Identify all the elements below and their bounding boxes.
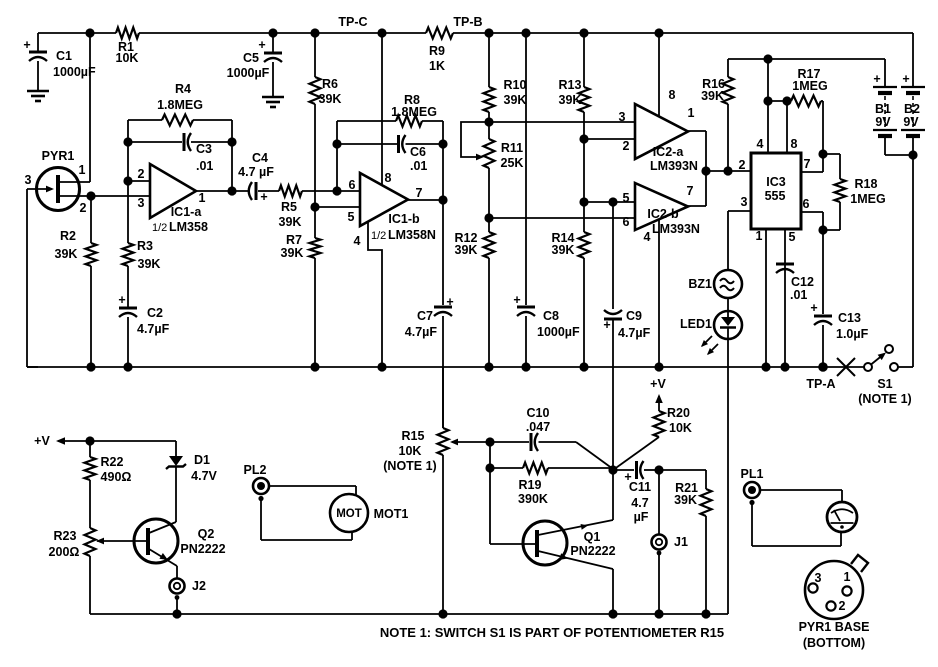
- svg-text:PYR1: PYR1: [42, 149, 75, 163]
- node IC2-a pin2 junction: [579, 134, 588, 143]
- svg-text:39K: 39K: [281, 246, 304, 260]
- motor MOT1: [330, 494, 368, 532]
- svg-text:200Ω: 200Ω: [49, 545, 80, 559]
- resistor R21: [701, 489, 712, 516]
- wire R21 bottom: [705, 516, 707, 614]
- node ground rail IC3 pin5: [780, 362, 789, 371]
- svg-text:C13: C13: [838, 311, 861, 325]
- svg-text:2: 2: [623, 139, 630, 153]
- node C9 top junction: [608, 197, 617, 206]
- svg-text:2: 2: [739, 158, 746, 172]
- wire +V rail 2 (B1 positive bus): [728, 58, 885, 60]
- potentiometer R23: [85, 528, 96, 614]
- node IC1-b pin5 junction: [310, 202, 319, 211]
- resistor R12: [484, 232, 495, 258]
- capacitor C12: [776, 264, 794, 273]
- resistor R5: [279, 186, 302, 197]
- svg-text:490Ω: 490Ω: [101, 470, 132, 484]
- op-amp IC1-a: [150, 164, 196, 218]
- wire LED1 to bottom rail: [727, 339, 729, 614]
- svg-text:+: +: [603, 318, 610, 332]
- wire R5 to IC1-b pin6: [302, 190, 337, 192]
- wire PL2 to MOT1 bottom: [261, 500, 352, 540]
- label C9: [603, 309, 650, 340]
- node C6 left junction: [332, 139, 341, 148]
- wire PL2 to MOT1 top: [269, 486, 356, 496]
- wire IC3 pin6 stub: [801, 212, 823, 230]
- svg-text:+V: +V: [650, 377, 666, 391]
- node ground rail R14: [579, 362, 588, 371]
- label MOT1: [374, 507, 409, 521]
- svg-text:B1: B1: [875, 102, 891, 116]
- power +V right: [650, 377, 666, 411]
- transistor Q1: [523, 521, 567, 565]
- diode D1 zener: [166, 441, 186, 522]
- wire C7 bottom: [442, 316, 444, 428]
- wire IC3 pin5: [784, 229, 786, 367]
- node ground rail R12: [484, 362, 493, 371]
- svg-text:6: 6: [623, 215, 630, 229]
- label C2: [118, 293, 169, 336]
- svg-text:39K: 39K: [674, 493, 697, 507]
- svg-text:C9: C9: [626, 309, 642, 323]
- wire IC1-b pin8 from TP-C: [381, 33, 383, 185]
- svg-text:J2: J2: [192, 579, 206, 593]
- comparator IC2-a: [635, 104, 688, 159]
- svg-text:39K: 39K: [559, 93, 582, 107]
- svg-text:9V: 9V: [875, 115, 891, 129]
- wire C2 bottom: [127, 317, 129, 367]
- svg-text:Q1: Q1: [584, 530, 601, 544]
- svg-text:1/2: 1/2: [371, 230, 386, 242]
- capacitor C1: [29, 33, 47, 90]
- label C8: [513, 293, 580, 339]
- label R15: [383, 429, 436, 473]
- node IC3 pin7 junction: [818, 149, 827, 158]
- wire R19 right: [548, 467, 613, 469]
- wire TP-B to R10: [488, 33, 490, 87]
- svg-text:2: 2: [80, 201, 87, 215]
- svg-text:PN2222: PN2222: [180, 542, 225, 556]
- wire C6 right: [406, 143, 444, 145]
- buzzer BZ1: [714, 211, 742, 298]
- label C7: [405, 295, 454, 339]
- svg-text:3: 3: [25, 173, 32, 187]
- svg-text:C8: C8: [543, 309, 559, 323]
- resistor R6: [310, 77, 321, 104]
- svg-text:TP-B: TP-B: [453, 15, 482, 29]
- label D1: [191, 453, 217, 483]
- note text: [380, 625, 724, 640]
- svg-text:R5: R5: [281, 200, 297, 214]
- label R18: [850, 177, 885, 206]
- svg-text:(BOTTOM): (BOTTOM): [803, 636, 865, 650]
- capacitor C6: [399, 135, 406, 153]
- label R3: [137, 239, 160, 271]
- wire Q2 emitter: [149, 549, 177, 578]
- svg-text:4: 4: [354, 234, 361, 248]
- node R15 wiper junction: [485, 437, 494, 446]
- svg-text:+: +: [513, 293, 520, 307]
- svg-text:4: 4: [757, 137, 764, 151]
- wire IC3 pin3 wire: [728, 210, 751, 212]
- wire +V to D1: [90, 440, 176, 442]
- svg-text:R9: R9: [429, 44, 445, 58]
- label C3: [196, 142, 213, 173]
- wire R19 left: [490, 442, 523, 468]
- svg-text:39K: 39K: [279, 215, 302, 229]
- label PYR1 BASE: [799, 620, 870, 650]
- resistor R14: [579, 232, 590, 258]
- svg-text:+: +: [446, 295, 453, 309]
- wire R4 right vertical: [231, 120, 233, 191]
- label R6: [319, 77, 342, 106]
- jack J1: [652, 535, 667, 615]
- node ground rail R2: [86, 362, 95, 371]
- label B1: [873, 72, 891, 129]
- svg-text:1MEG: 1MEG: [850, 192, 885, 206]
- wire C10 left: [490, 441, 529, 443]
- wire C11 right: [644, 469, 659, 471]
- wire R3 to C2: [127, 266, 129, 308]
- node IC1-b output junction: [438, 195, 447, 204]
- wire R8 right vertical: [442, 121, 444, 200]
- wire IC2-b output: [688, 205, 706, 207]
- svg-text:IC2-b: IC2-b: [647, 207, 679, 221]
- switch S1: [864, 345, 898, 371]
- svg-text:R3: R3: [137, 239, 153, 253]
- svg-text:39K: 39K: [319, 92, 342, 106]
- label R8: [391, 93, 437, 119]
- wire ground rail: [27, 366, 864, 368]
- wire IC2-b pin6 wire: [489, 217, 635, 219]
- wire IC3 pin4: [767, 59, 769, 153]
- resistor R7: [310, 238, 321, 258]
- svg-text:1.0µF: 1.0µF: [836, 327, 869, 341]
- svg-text:+: +: [23, 38, 30, 52]
- svg-text:C2: C2: [147, 306, 163, 320]
- node IC2 outputs junction: [701, 166, 710, 175]
- label C1: [23, 38, 96, 79]
- svg-text:R7: R7: [286, 233, 302, 247]
- wire IC2-b pin5 wire: [584, 201, 635, 203]
- wire R7 bottom: [314, 258, 316, 367]
- node IC2-b pin6 junction: [484, 213, 493, 222]
- svg-text:10K: 10K: [669, 421, 692, 435]
- svg-text:LM358: LM358: [169, 220, 208, 234]
- capacitor C5: [264, 33, 282, 96]
- svg-text:4.7 µF: 4.7 µF: [238, 165, 274, 179]
- svg-text:R6: R6: [322, 77, 338, 91]
- battery B2: [901, 33, 925, 155]
- svg-text:PL1: PL1: [741, 467, 764, 481]
- wire IC3 pin8: [786, 101, 788, 153]
- svg-text:5: 5: [789, 230, 796, 244]
- wire R3 top: [127, 181, 129, 243]
- wire C4 to R5: [258, 190, 279, 192]
- node IC3 pin6 junction: [818, 225, 827, 234]
- label C12: [790, 275, 814, 302]
- svg-text:IC1-b: IC1-b: [388, 212, 420, 226]
- label R12: [455, 231, 478, 257]
- jack J2: [170, 579, 185, 615]
- svg-text:LED1: LED1: [680, 317, 712, 331]
- label B2: [902, 72, 920, 129]
- svg-text:R2: R2: [60, 229, 76, 243]
- wire R15 wiper: [450, 439, 490, 446]
- svg-text:R4: R4: [175, 82, 191, 96]
- label PYR1 base pins: [815, 570, 851, 613]
- led LED1: [714, 298, 742, 339]
- wire IC2-a pin8: [658, 33, 660, 116]
- wire C10 right: [539, 442, 614, 469]
- node IC2-b pin5 junction: [579, 197, 588, 206]
- node TP-A: [806, 362, 835, 391]
- wire R17 right: [821, 101, 823, 154]
- svg-text:C10: C10: [527, 406, 550, 420]
- resistor R1: [116, 28, 139, 39]
- node R17 left junction: [763, 96, 772, 105]
- svg-text:PL2: PL2: [244, 463, 267, 477]
- resistor R19: [523, 463, 548, 474]
- wire R2 bottom: [90, 266, 92, 367]
- svg-text:10K: 10K: [116, 51, 139, 65]
- label J1: [674, 535, 688, 549]
- wire R4 feedback top: [128, 119, 232, 121]
- svg-text:1: 1: [199, 191, 206, 205]
- svg-text:R22: R22: [101, 455, 124, 469]
- svg-text:4.7V: 4.7V: [191, 469, 217, 483]
- svg-text:R13: R13: [559, 78, 582, 92]
- power +V left: [34, 434, 90, 448]
- wire bottom rail: [90, 613, 728, 615]
- meter earphone: [827, 502, 857, 532]
- node Q1 collector junction: [608, 465, 617, 474]
- svg-text:2: 2: [839, 599, 846, 613]
- resistor R18: [823, 154, 846, 230]
- svg-text:25K: 25K: [501, 156, 524, 170]
- label R16: [701, 77, 725, 103]
- svg-text:NOTE 1: SWITCH S1 IS PART OF: NOTE 1: SWITCH S1 IS PART OF POTENTIOMET…: [380, 625, 724, 640]
- label BZ1: [688, 277, 712, 291]
- node top-rail junction PYR1 pin1: [85, 28, 94, 37]
- svg-text:µF: µF: [634, 510, 649, 524]
- node IC3 pin8 junction: [782, 96, 791, 105]
- svg-text:4.7: 4.7: [631, 496, 648, 510]
- capacitor C8: [517, 307, 535, 316]
- wire C9 bottom: [612, 320, 614, 470]
- resistor R2: [86, 243, 97, 266]
- svg-text:7: 7: [804, 157, 811, 171]
- op-amp IC1-b: [360, 173, 408, 226]
- svg-text:5: 5: [623, 191, 630, 205]
- wire R10 to R11: [488, 112, 490, 139]
- node R19 left junction: [485, 463, 494, 472]
- resistor R13: [579, 87, 590, 112]
- svg-text:LM358N: LM358N: [388, 228, 436, 242]
- wire C4 left: [232, 190, 250, 192]
- svg-text:R23: R23: [54, 529, 77, 543]
- label C10: [526, 406, 550, 434]
- node bottom rail R21: [701, 609, 710, 618]
- wire top rail to R13: [583, 33, 585, 87]
- node TP-B: [453, 15, 493, 38]
- node top-rail junction R6: [310, 28, 319, 37]
- ground below C5: [262, 97, 284, 107]
- label R21: [674, 481, 698, 507]
- svg-text:+: +: [260, 190, 267, 204]
- wire C11 left: [613, 469, 634, 471]
- svg-text:6: 6: [803, 197, 810, 211]
- svg-text:1K: 1K: [429, 59, 445, 73]
- wire R8 feedback top: [337, 120, 443, 122]
- wire Q2 collector: [149, 522, 176, 533]
- label IC1-a: [138, 167, 208, 234]
- node bottom rail Q1 emitter: [608, 609, 617, 618]
- resistor R20: [654, 411, 665, 437]
- svg-text:1: 1: [688, 106, 695, 120]
- svg-text:R20: R20: [667, 406, 690, 420]
- wire Q1 collector: [538, 470, 613, 535]
- svg-text:1.8MEG: 1.8MEG: [157, 98, 203, 112]
- svg-text:IC3: IC3: [766, 175, 786, 189]
- svg-text:C3: C3: [196, 142, 212, 156]
- svg-text:R11: R11: [501, 141, 523, 155]
- label IC2-b: [623, 184, 700, 244]
- wire R20 to node: [613, 437, 659, 470]
- wire IC3 pin1: [765, 229, 767, 367]
- svg-text:3: 3: [815, 571, 822, 585]
- label S1: [858, 377, 911, 406]
- switch S1 break mark: [837, 358, 855, 376]
- svg-text:C6: C6: [410, 145, 426, 159]
- wire top +V rail (B2 positive bus): [38, 32, 913, 34]
- wire R8 left vertical: [336, 121, 338, 191]
- svg-text:1: 1: [844, 570, 851, 584]
- resistor R10: [484, 87, 495, 112]
- svg-text:7: 7: [416, 186, 423, 200]
- svg-text:Q2: Q2: [198, 527, 215, 541]
- capacitor C11: [637, 461, 644, 479]
- capacitor C13: [814, 230, 832, 367]
- wire R17 left: [768, 100, 791, 102]
- label IC3 pins: [739, 137, 811, 244]
- svg-text:R15: R15: [402, 429, 425, 443]
- wire R11 wiper: [461, 122, 489, 160]
- node R16 bottom junction: [723, 166, 732, 175]
- label C11: [624, 470, 651, 524]
- svg-text:R19: R19: [519, 478, 542, 492]
- label R19: [518, 478, 548, 506]
- capacitor C3: [184, 133, 191, 151]
- svg-text:8: 8: [791, 137, 798, 151]
- svg-text:LM393N: LM393N: [650, 159, 698, 173]
- node C11 right junction: [654, 465, 663, 474]
- svg-text:1: 1: [756, 229, 763, 243]
- label J2: [192, 579, 206, 593]
- plug PL1: [744, 482, 760, 505]
- node C3 right junction: [227, 137, 236, 146]
- wire PYR1 to IC1-a pin3: [91, 195, 150, 197]
- wire J1 top: [658, 470, 660, 535]
- wire IC3 pin7 stub: [801, 154, 823, 172]
- wire IC1-b pin5 stub: [315, 206, 360, 208]
- node C3 left junction: [123, 137, 132, 146]
- wire PYR1 pin3 gate: [27, 186, 54, 193]
- svg-text:C5: C5: [243, 51, 259, 65]
- timer IC3 555: [751, 153, 801, 229]
- label R17: [792, 67, 827, 93]
- svg-text:+: +: [902, 72, 909, 86]
- resistor R16: [723, 59, 734, 171]
- svg-text:1000µF: 1000µF: [537, 325, 580, 339]
- node R10-R11 junction: [484, 117, 493, 126]
- wire IC2-b pin4 to ground: [658, 220, 660, 367]
- svg-text:TP-A: TP-A: [806, 377, 835, 391]
- label IC2-a: [619, 88, 698, 173]
- label R4: [157, 82, 203, 112]
- svg-text:(NOTE 1): (NOTE 1): [858, 392, 911, 406]
- wire Q1 base: [490, 468, 537, 544]
- node ground rail IC2-b pin4: [654, 362, 663, 371]
- wire R13 to R14: [583, 112, 585, 232]
- svg-text:.01: .01: [790, 288, 807, 302]
- connector PYR1 base: [805, 555, 868, 619]
- svg-text:J1: J1: [674, 535, 688, 549]
- wire Q1 emitter: [538, 551, 613, 614]
- svg-text:IC2-a: IC2-a: [653, 145, 685, 159]
- node C6 right junction: [438, 139, 447, 148]
- wire IC1-a output: [196, 190, 232, 192]
- resistor R9: [426, 28, 453, 39]
- svg-text:TP-C: TP-C: [338, 15, 367, 29]
- label C4: [238, 151, 274, 204]
- led LED1 arrows: [699, 336, 718, 357]
- svg-text:C12: C12: [791, 275, 814, 289]
- svg-text:390K: 390K: [518, 492, 548, 506]
- resistor R8: [396, 116, 422, 127]
- label PL2: [244, 463, 267, 477]
- svg-text:5: 5: [348, 210, 355, 224]
- capacitor C9: [604, 310, 622, 319]
- svg-text:9V: 9V: [903, 115, 919, 129]
- svg-text:7: 7: [687, 184, 694, 198]
- wire R11 to R12: [488, 168, 490, 232]
- svg-text:8: 8: [385, 171, 392, 185]
- svg-text:+: +: [118, 293, 125, 307]
- capacitor C7: [434, 307, 452, 316]
- wire R6 top: [314, 33, 316, 77]
- node battery negative junction: [908, 150, 917, 159]
- label Q2: [180, 527, 225, 556]
- node bottom rail J2: [172, 609, 181, 618]
- wire C7 to R15: [442, 367, 444, 428]
- label R9: [429, 44, 445, 73]
- resistor R4: [162, 115, 193, 126]
- svg-text:MOT: MOT: [336, 508, 362, 520]
- ground below C1: [27, 91, 49, 101]
- wire PYR1 pin2: [58, 195, 91, 197]
- potentiometer R15: [438, 428, 449, 614]
- svg-text:BZ1: BZ1: [688, 277, 712, 291]
- svg-text:PN2222: PN2222: [570, 544, 615, 558]
- node ground rail IC1-b pin4: [377, 362, 386, 371]
- svg-text:+: +: [810, 301, 817, 315]
- node ground rail C8: [521, 362, 530, 371]
- node bottom rail R15: [438, 609, 447, 618]
- transistor Q2: [134, 519, 178, 563]
- node IC1-b pin6 junction: [332, 186, 341, 195]
